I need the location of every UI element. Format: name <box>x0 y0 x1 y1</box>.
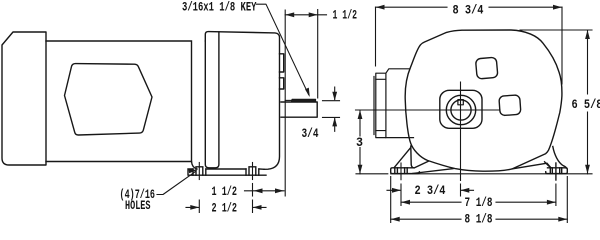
output shaft <box>281 102 317 117</box>
flange rim <box>376 73 386 137</box>
svg-text:2 1/2: 2 1/2 <box>212 201 238 216</box>
hub keyway notch <box>458 100 463 105</box>
motor bell bottom fillet <box>192 162 198 170</box>
left foot centerline <box>400 163 402 180</box>
left foot pad <box>391 168 420 174</box>
gearbox housing outline <box>205 32 279 170</box>
svg-text:1 1/2: 1 1/2 <box>212 184 238 199</box>
dim: 8 1/8 row <box>391 218 568 220</box>
foot bolt slot right ticks <box>246 167 259 175</box>
gearbox face vertical with bottom fillet <box>205 32 219 168</box>
dim: bottom 2 1/2 (left view) <box>199 200 252 213</box>
dim: 6 5/8 top extension <box>520 29 592 31</box>
dim: top 1 1/2 line with arrows <box>285 14 326 16</box>
svg-text:8 3/4: 8 3/4 <box>453 2 484 17</box>
svg-text:8 1/8: 8 1/8 <box>465 211 493 225</box>
svg-text:7 1/8: 7 1/8 <box>465 195 493 210</box>
left foot gusset <box>394 146 429 168</box>
right foot toe line <box>513 163 551 169</box>
leader: key callout <box>257 4 309 95</box>
bolt hole centerline left <box>198 163 200 180</box>
dim: bottom 1 1/2 (left view) <box>245 190 285 192</box>
conduit pad upper square <box>475 57 497 79</box>
right foot slot ticks <box>550 168 561 174</box>
dim: 8 3/4 line <box>376 6 563 8</box>
left foot slot ticks <box>395 168 407 174</box>
flange to body connectors <box>386 69 414 138</box>
svg-text:3: 3 <box>356 135 363 150</box>
motor end cap (left view) <box>2 32 46 165</box>
svg-text:6 5/8: 6 5/8 <box>572 97 600 112</box>
dim: 3/4 extension lines <box>323 101 340 118</box>
motor body hump contour <box>65 64 153 135</box>
dim: 3/4 arrows <box>334 87 336 131</box>
left foot toe line <box>413 169 453 174</box>
right foot centerline <box>555 163 557 180</box>
right foot front flare <box>553 147 567 169</box>
right foot pad <box>546 168 568 174</box>
dim: 3 line <box>359 110 361 174</box>
flange lip <box>373 77 375 135</box>
bolt hole centerline extensions <box>401 184 556 206</box>
dim: 8 1/8 extensions <box>391 177 568 223</box>
hub horizontal centerline <box>356 109 501 111</box>
hub vertical centerline <box>460 82 462 196</box>
svg-text:HOLES: HOLES <box>125 198 151 213</box>
hub outer circle <box>446 95 475 124</box>
dim: 8 3/4 extensions <box>376 7 563 84</box>
bolt hole centerline right <box>252 163 254 180</box>
hub boss <box>440 90 482 128</box>
conduit pad right square <box>499 95 521 116</box>
flange rim rings <box>376 79 386 130</box>
svg-text:1 1/2: 1 1/2 <box>333 7 358 22</box>
svg-text:3/16x1 1/8 KEY: 3/16x1 1/8 KEY <box>182 0 257 15</box>
dim: 6 5/8 line <box>587 30 589 174</box>
motor body (left view) <box>46 41 192 162</box>
hub bore circle <box>451 100 471 120</box>
dim: 2 3/4 row <box>387 189 474 191</box>
dim: top 1 1/2 extension lines <box>285 10 318 197</box>
shaft key (filled) <box>291 99 316 102</box>
gearbox boss tab upper <box>280 54 284 72</box>
svg-text:2 3/4: 2 3/4 <box>415 183 446 198</box>
dim: 7 1/8 row <box>401 201 556 203</box>
foot plate (left view) <box>188 169 266 175</box>
foot bolt slot left ticks <box>193 167 206 175</box>
ground baseline <box>356 173 592 175</box>
gearbox boss tab lower <box>280 78 284 89</box>
right foot gusset curve <box>545 162 551 168</box>
motor body outline (right view) <box>405 30 562 171</box>
svg-text:3/4: 3/4 <box>302 126 319 141</box>
leader: holes callout <box>157 172 196 195</box>
shaft key seat line <box>285 99 292 101</box>
